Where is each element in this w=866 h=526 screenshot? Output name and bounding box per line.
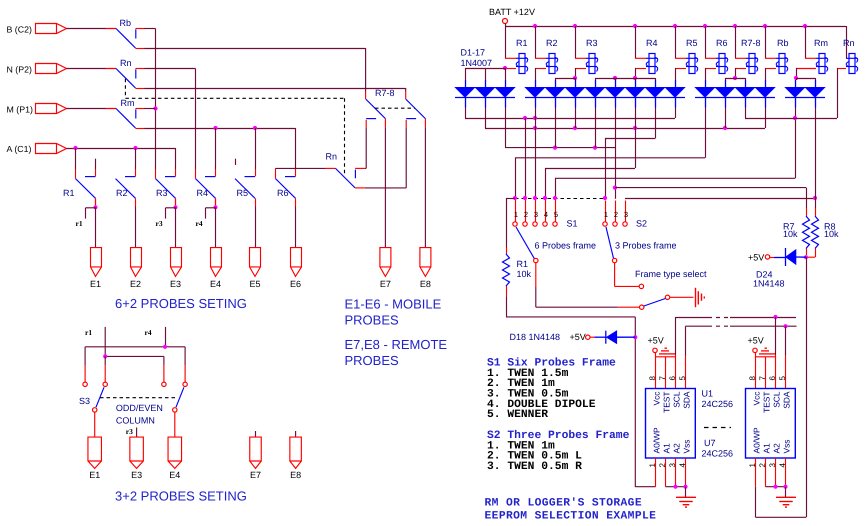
svg-text:A0/WP: A0/WP	[651, 427, 661, 453]
svg-text:24C256: 24C256	[702, 449, 734, 459]
svg-text:6: 6	[768, 376, 777, 381]
wire SCL bus	[675, 317, 677, 355]
probe E8	[290, 437, 302, 480]
wire R4 coil to diodes	[635, 68, 637, 78]
probe E5	[249, 248, 260, 289]
svg-text:A (C1): A (C1)	[7, 144, 32, 154]
relay coil R2	[535, 38, 558, 74]
wire R7-8 left out to E7	[384, 127, 386, 247]
probe E3	[170, 248, 182, 289]
svg-text:Rb: Rb	[120, 18, 132, 28]
S3 contact circles	[83, 382, 87, 386]
relay contact R6	[276, 169, 296, 207]
wire D635 to S1-4	[635, 108, 637, 169]
resistor R8 10k	[815, 208, 817, 216]
svg-text:ODD/EVEN: ODD/EVEN	[116, 403, 163, 413]
junction M to R5 NC	[253, 126, 257, 130]
wire U1 pins 2 3 4 to ground	[665, 458, 667, 487]
svg-text:+5V: +5V	[748, 252, 764, 262]
wire R3 coil to diodes	[575, 68, 577, 78]
+5V terminal	[648, 335, 664, 352]
wire Rm out to R4 R5 R6 NC	[145, 128, 296, 130]
svg-text:r1: r1	[85, 328, 92, 337]
diode D18	[510, 331, 636, 344]
diode D24	[748, 248, 806, 289]
svg-text:10k: 10k	[824, 229, 839, 239]
svg-text:Rn: Rn	[120, 58, 132, 68]
junction Rb/Rm	[153, 106, 157, 110]
svg-text:R4: R4	[197, 188, 209, 198]
svg-text:PROBES: PROBES	[345, 313, 400, 328]
wire to S3 contact B	[104, 356, 106, 365]
junction bus x675	[673, 24, 677, 28]
wire SDA bus	[685, 326, 687, 355]
relay coil Rm	[796, 38, 828, 74]
wire Rn2 NC up to R7-8 left hook	[365, 167, 366, 169]
svg-text:1N4148: 1N4148	[753, 279, 785, 289]
wire R7-8 right out to E8	[424, 127, 426, 247]
pin numbers U7 bottom	[748, 462, 787, 467]
IC U1 24C256	[646, 389, 696, 459]
svg-text:A2: A2	[671, 443, 681, 454]
wire Rm NC stub	[145, 108, 156, 110]
svg-text:A0/WP: A0/WP	[751, 427, 761, 453]
svg-text:7: 7	[758, 376, 767, 381]
wire +5V rake U7	[755, 353, 757, 357]
svg-text:S3: S3	[79, 396, 90, 406]
svg-text:Vss: Vss	[781, 440, 791, 454]
wire to S3 contact A	[84, 347, 86, 365]
wire cathode rail D to Rn return	[745, 108, 747, 119]
junction D535 rail B	[533, 126, 537, 130]
probe E3	[130, 437, 144, 480]
wire A to R3 NC	[175, 148, 177, 169]
wire S3 wiper to E1 (3+2)	[94, 412, 96, 437]
svg-text:R4: R4	[646, 38, 658, 48]
relay coil R7-8	[735, 38, 761, 74]
svg-text:6 Probes frame: 6 Probes frame	[535, 241, 597, 251]
relay coil R5	[675, 38, 698, 74]
svg-text:RM OR LOGGER'S STORAGE: RM OR LOGGER'S STORAGE	[485, 496, 643, 509]
svg-text:Rb: Rb	[777, 38, 789, 48]
junction D535 rail A	[533, 116, 537, 120]
junction S2-2 R7	[613, 186, 617, 190]
wire D615 to S2-2 and R7	[615, 108, 617, 199]
svg-text:r4: r4	[145, 328, 152, 337]
wire Rn2 out to R7-8 right hook	[365, 187, 406, 189]
svg-text:3: 3	[534, 210, 538, 219]
junction r4 rail	[163, 345, 167, 349]
wire SCL SDA pins U1	[675, 355, 677, 389]
wire B(C2) to Rb	[67, 28, 107, 30]
wire cathode D505 rail C	[505, 108, 507, 148]
junction S1-2 tap	[523, 116, 527, 120]
svg-text:SDA: SDA	[781, 391, 791, 409]
wire R6 coil to diode	[705, 68, 707, 80]
svg-text:R7-8: R7-8	[375, 88, 395, 98]
relay contact R5	[235, 169, 256, 207]
stub above E7 (3+2)	[255, 431, 257, 437]
wire U7 pin1	[755, 458, 757, 487]
svg-text:E7,E8 - REMOTE: E7,E8 - REMOTE	[345, 337, 448, 352]
svg-text:E2: E2	[130, 279, 141, 289]
relay contact Rn	[106, 58, 145, 89]
resistor R7 10k	[806, 208, 808, 216]
svg-text:Rm: Rm	[814, 38, 828, 48]
svg-text:3+2 PROBES SETING: 3+2 PROBES SETING	[115, 488, 247, 503]
relay contacts R7-8	[366, 88, 426, 127]
svg-text:U7: U7	[704, 438, 716, 448]
svg-text:D18 1N4148: D18 1N4148	[510, 332, 561, 342]
connector N (P2)	[7, 64, 67, 75]
svg-text:6: 6	[668, 376, 677, 381]
svg-text:A1: A1	[761, 443, 771, 454]
mechanical link dashes R7-8	[375, 107, 415, 109]
svg-text:4: 4	[544, 210, 548, 219]
mechanical link S1 S2	[515, 198, 605, 200]
svg-text:R2: R2	[116, 188, 128, 198]
wire 3+2 lower rail	[105, 355, 164, 357]
wire D795 to S1-5	[795, 108, 797, 179]
svg-text:24C256: 24C256	[702, 399, 734, 409]
svg-text:E8: E8	[420, 279, 431, 289]
junction D18	[633, 335, 637, 339]
svg-text:PROBES: PROBES	[345, 353, 400, 368]
relay coil Rb	[765, 38, 789, 74]
svg-text:E3: E3	[170, 279, 181, 289]
wire Rn coil return	[837, 68, 839, 118]
switch S1 contacts	[513, 196, 578, 228]
switch S1 wiper	[516, 227, 534, 259]
junction D635 rail B	[633, 126, 637, 130]
svg-text:8: 8	[648, 376, 657, 381]
relay contact Rn second	[326, 152, 365, 188]
svg-text:r4: r4	[196, 219, 203, 228]
resistor R1 10k	[503, 254, 510, 286]
stub above E8 (3+2)	[295, 431, 297, 437]
wire Rb out to R7-8 left	[145, 48, 366, 50]
relay coil Rn	[837, 38, 858, 74]
svg-text:Vcc: Vcc	[651, 392, 661, 406]
wire R1 coil to diodes D1-D3	[503, 66, 507, 70]
wire R5 out to E5	[255, 207, 257, 248]
net stub r1 (3+2 section)	[104, 327, 106, 357]
text S2 frame list	[487, 429, 630, 473]
probe E8	[420, 248, 431, 289]
ground	[776, 497, 796, 507]
relay contact R4	[196, 169, 216, 207]
svg-text:3: 3	[624, 210, 628, 219]
net stub r4	[206, 207, 216, 209]
net stub r3	[166, 207, 176, 209]
wire M(P1) to Rm	[67, 108, 107, 110]
wire U7 pins 2 3 4 to ground	[765, 458, 767, 487]
svg-text:2: 2	[614, 210, 618, 219]
wire R1 10k to D18 node	[506, 286, 508, 296]
wire S1 wiper to frame select	[535, 263, 537, 287]
junction bus x805	[803, 24, 807, 28]
svg-text:SDA: SDA	[681, 391, 691, 409]
svg-text:R5: R5	[686, 38, 698, 48]
junction A to R1	[73, 146, 77, 150]
junction A to R2 NC	[133, 146, 137, 150]
svg-text:R2: R2	[546, 38, 558, 48]
junction D725 rail B	[723, 126, 727, 130]
connector M (P1)	[7, 104, 67, 115]
pin numbers U7 top	[748, 376, 787, 381]
probe E4	[210, 248, 222, 289]
wire to S3 contact D	[184, 347, 186, 365]
svg-text:3 Probes frame: 3 Probes frame	[615, 241, 677, 251]
junction bus x575	[573, 24, 577, 28]
probe E6	[290, 248, 302, 289]
ground	[676, 497, 696, 507]
mechanical link dashes left relays	[124, 79, 126, 99]
svg-text:6+2 PROBES SETING: 6+2 PROBES SETING	[115, 296, 247, 311]
wire Rn out to R7-8 right	[145, 88, 406, 90]
svg-text:Rn: Rn	[843, 38, 855, 48]
+5V terminal	[748, 335, 764, 352]
relay contact R1	[63, 169, 96, 207]
svg-text:7: 7	[658, 376, 667, 381]
wire R6 out to E6	[295, 207, 297, 248]
svg-text:SCL: SCL	[771, 391, 781, 408]
net stub r1	[86, 207, 96, 209]
switch S3 blades	[96, 387, 104, 407]
switch frame select	[665, 295, 669, 299]
wire Rb coil to diode	[765, 68, 767, 80]
svg-text:E8: E8	[290, 470, 301, 480]
junction bus x735	[733, 24, 737, 28]
switch S2 wiper	[606, 227, 614, 259]
svg-text:2: 2	[524, 210, 528, 219]
svg-text:SCL: SCL	[671, 391, 681, 408]
svg-text:R6: R6	[277, 188, 289, 198]
wire D655 D675 to S2-1	[675, 108, 677, 119]
wire R2 coil to diode	[535, 68, 537, 80]
wire SCL SDA pins U7	[775, 355, 777, 389]
svg-text:R7-8: R7-8	[741, 38, 761, 48]
svg-text:+5V: +5V	[570, 332, 586, 342]
connector B (C2)	[7, 24, 67, 35]
wire A(C1) bus	[67, 148, 176, 150]
probe E1	[90, 248, 102, 289]
wire U7 pin1 to D24 line	[755, 487, 757, 518]
wire cathode D465 rail A	[465, 108, 467, 119]
relay contact R3	[156, 169, 176, 207]
svg-text:R1: R1	[517, 259, 529, 269]
probe E4	[168, 437, 182, 480]
junction U7 SCL	[773, 315, 777, 319]
junction U7 SDA	[783, 324, 787, 328]
relay contact Rm	[106, 98, 145, 129]
svg-text:E7: E7	[380, 279, 391, 289]
svg-text:R6: R6	[716, 38, 728, 48]
svg-text:E4: E4	[210, 279, 221, 289]
probe E7	[380, 248, 391, 289]
pin numbers U1 bottom	[648, 462, 687, 467]
wire R5 coil to diode	[675, 68, 677, 80]
wire S2-3 to R8	[625, 198, 815, 200]
junction D795 rail D	[793, 116, 797, 120]
junction bus x535	[533, 24, 537, 28]
svg-text:5. WENNER: 5. WENNER	[487, 409, 548, 421]
svg-text:+5V: +5V	[748, 335, 764, 345]
svg-text:S2: S2	[636, 218, 647, 228]
svg-text:+5V: +5V	[648, 335, 664, 345]
wire R7-8 coil to diodes	[735, 68, 737, 78]
wire R2 out to E2	[135, 207, 137, 248]
wire Rb NC to Rm NC junction	[145, 28, 156, 30]
probe E7	[250, 437, 262, 480]
junction D595 rail C	[593, 146, 597, 150]
wire D705 to S1-1	[705, 108, 707, 158]
separator dashes	[704, 427, 731, 429]
wire N(P2) to Rn	[67, 68, 107, 70]
svg-text:R1: R1	[63, 188, 75, 198]
wire R3 out to E3	[175, 198, 177, 207]
svg-text:1: 1	[514, 210, 518, 219]
svg-text:TEST: TEST	[661, 392, 671, 413]
wire U1 pin1 to D18 node	[635, 486, 655, 488]
wire S3 wiper to E4 (3+2)	[174, 412, 176, 437]
wire S1-1 to R1 10k	[506, 198, 515, 200]
svg-text:Rn: Rn	[326, 152, 338, 162]
junction D575 rail B	[573, 126, 577, 130]
wire M to R6 NC	[295, 128, 297, 169]
svg-text:10k: 10k	[517, 269, 532, 279]
relay coil R6	[705, 38, 728, 74]
svg-text:E1: E1	[89, 470, 100, 480]
junction D555 rail C	[553, 146, 557, 150]
wire R1 out to E1	[95, 198, 97, 207]
wire D24 node down right side	[806, 257, 808, 517]
dead-end stub above R1 NC	[95, 159, 97, 169]
svg-text:8: 8	[748, 376, 757, 381]
svg-text:10k: 10k	[783, 229, 798, 239]
junction bus x705	[703, 24, 707, 28]
svg-text:A2: A2	[771, 443, 781, 454]
svg-text:Rm: Rm	[121, 98, 135, 108]
connector A (C1)	[7, 144, 67, 155]
wire +5V rake U1	[655, 353, 657, 357]
svg-text:3. TWEN 0.5m R: 3. TWEN 0.5m R	[487, 461, 582, 473]
svg-text:R5: R5	[237, 188, 249, 198]
svg-text:E1-E6 - MOBILE: E1-E6 - MOBILE	[345, 297, 442, 312]
relay coil R4	[635, 38, 658, 74]
wire U1 pin1	[655, 458, 657, 487]
svg-text:BATT +12V: BATT +12V	[489, 7, 535, 17]
svg-text:M (P1): M (P1)	[7, 105, 33, 115]
pin numbers U1 top	[648, 376, 687, 381]
relay contact Rb	[106, 18, 145, 49]
probe E2	[130, 248, 142, 289]
svg-text:E5: E5	[249, 279, 260, 289]
junction bus x635	[633, 24, 637, 28]
svg-text:R3: R3	[586, 38, 598, 48]
net stub r4 (3+2 section)	[165, 327, 167, 347]
wire +12V bus	[505, 24, 507, 59]
svg-text:5: 5	[778, 376, 787, 381]
svg-text:B (C2): B (C2)	[7, 25, 32, 35]
diodes D1-D17	[455, 80, 825, 108]
junction M to R4 NC	[213, 126, 217, 130]
S3 wiper circles	[93, 408, 97, 412]
svg-text:5: 5	[678, 376, 687, 381]
wire S2 wiper to frame select	[614, 263, 616, 287]
svg-text:U1: U1	[702, 389, 714, 399]
svg-text:D1-17: D1-17	[461, 48, 486, 58]
probe E1	[88, 437, 102, 480]
svg-text:1: 1	[604, 210, 608, 219]
svg-text:5: 5	[554, 210, 558, 219]
switch S2 contacts	[603, 196, 647, 228]
wire Rn NC to R4 pivot	[145, 68, 196, 70]
svg-text:E6: E6	[290, 279, 301, 289]
relay coil R3	[575, 38, 598, 74]
svg-text:Frame type select: Frame type select	[635, 269, 707, 279]
wire Rm coil to diodes	[796, 68, 798, 78]
wire to S3 contact C	[163, 356, 165, 365]
IC U7 24C256	[746, 389, 796, 459]
junction R8 riser	[813, 196, 817, 200]
svg-text:r1: r1	[76, 219, 83, 228]
svg-text:1N4007: 1N4007	[461, 58, 493, 68]
svg-text:EEPROM SELECTION EXAMPLE: EEPROM SELECTION EXAMPLE	[485, 510, 657, 522]
relay contact R2	[116, 169, 136, 207]
relay coil R1	[505, 38, 528, 74]
text S1 frame list	[487, 357, 616, 422]
svg-text:TEST: TEST	[761, 392, 771, 413]
text storage eeprom caption	[485, 496, 657, 522]
svg-text:Vcc: Vcc	[751, 392, 761, 406]
svg-text:r3: r3	[156, 219, 163, 228]
svg-text:E7: E7	[250, 470, 261, 480]
wire R6 pivot to Rn2	[276, 167, 326, 169]
wire 3+2 upper rail	[85, 346, 185, 348]
svg-text:r3: r3	[126, 427, 133, 436]
svg-text:COLUMN: COLUMN	[116, 416, 155, 426]
junction r1 rail	[103, 354, 107, 358]
svg-text:R1: R1	[516, 38, 528, 48]
svg-text:E3: E3	[131, 470, 142, 480]
junction D24	[804, 255, 808, 259]
wire R4 out to E4	[215, 198, 217, 207]
dead-end stub above R5 pivot	[235, 159, 237, 165]
svg-text:Vss: Vss	[681, 440, 691, 454]
ground (sideways)	[695, 288, 697, 307]
svg-text:S1: S1	[567, 218, 578, 228]
svg-text:R3: R3	[156, 188, 168, 198]
net stub r3 to E3 (3+2)	[136, 428, 138, 438]
svg-text:E4: E4	[169, 470, 180, 480]
svg-text:A1: A1	[661, 443, 671, 454]
junction bus x765	[763, 24, 767, 28]
wire cathode D485 rail B	[485, 108, 487, 129]
svg-text:N (P2): N (P2)	[7, 65, 32, 75]
svg-text:E1: E1	[90, 279, 101, 289]
